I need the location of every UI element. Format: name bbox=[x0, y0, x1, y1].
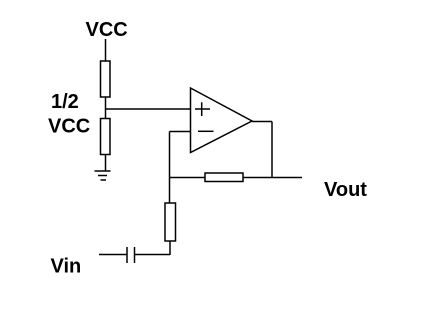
wire output down to feedback node bbox=[271, 122, 273, 178]
wire node B to feedback resistor R3 bbox=[169, 177, 205, 179]
op-amp - input marker bbox=[198, 130, 214, 132]
wire output node to Vout bbox=[272, 177, 302, 179]
svg-text:Vin: Vin bbox=[51, 256, 82, 278]
svg-text:VCC: VCC bbox=[48, 116, 90, 138]
wire op-amp output bbox=[252, 121, 272, 123]
svg-text:Vout: Vout bbox=[324, 179, 367, 201]
wire VCC rail to resistor R1 bbox=[105, 39, 107, 61]
wire R3 to output node bbox=[243, 177, 272, 179]
wire capacitor C1 to Vin bbox=[99, 254, 127, 256]
op-amp + input marker bbox=[195, 108, 210, 110]
svg-text:VCC: VCC bbox=[86, 19, 128, 41]
feedback resistor R3 bbox=[205, 173, 243, 182]
wire R2 to ground bbox=[105, 155, 107, 172]
wire - input down to node B bbox=[169, 132, 171, 204]
ground bbox=[95, 170, 111, 172]
resistor R2 (lower divider resistor) bbox=[101, 119, 111, 155]
capacitor C1 bbox=[134, 247, 136, 263]
input resistor R4 bbox=[165, 203, 176, 241]
wire R1 to node A bbox=[105, 97, 107, 119]
wire op-amp - input bbox=[170, 131, 191, 133]
resistor R1 (upper divider resistor) bbox=[101, 61, 111, 97]
op-amp U1 bbox=[191, 88, 253, 153]
node A wire to op-amp + input bbox=[105, 108, 191, 110]
wire R4 to corner bbox=[169, 241, 171, 255]
svg-text:1/2: 1/2 bbox=[51, 91, 79, 113]
wire corner to capacitor C1 bbox=[135, 254, 170, 256]
